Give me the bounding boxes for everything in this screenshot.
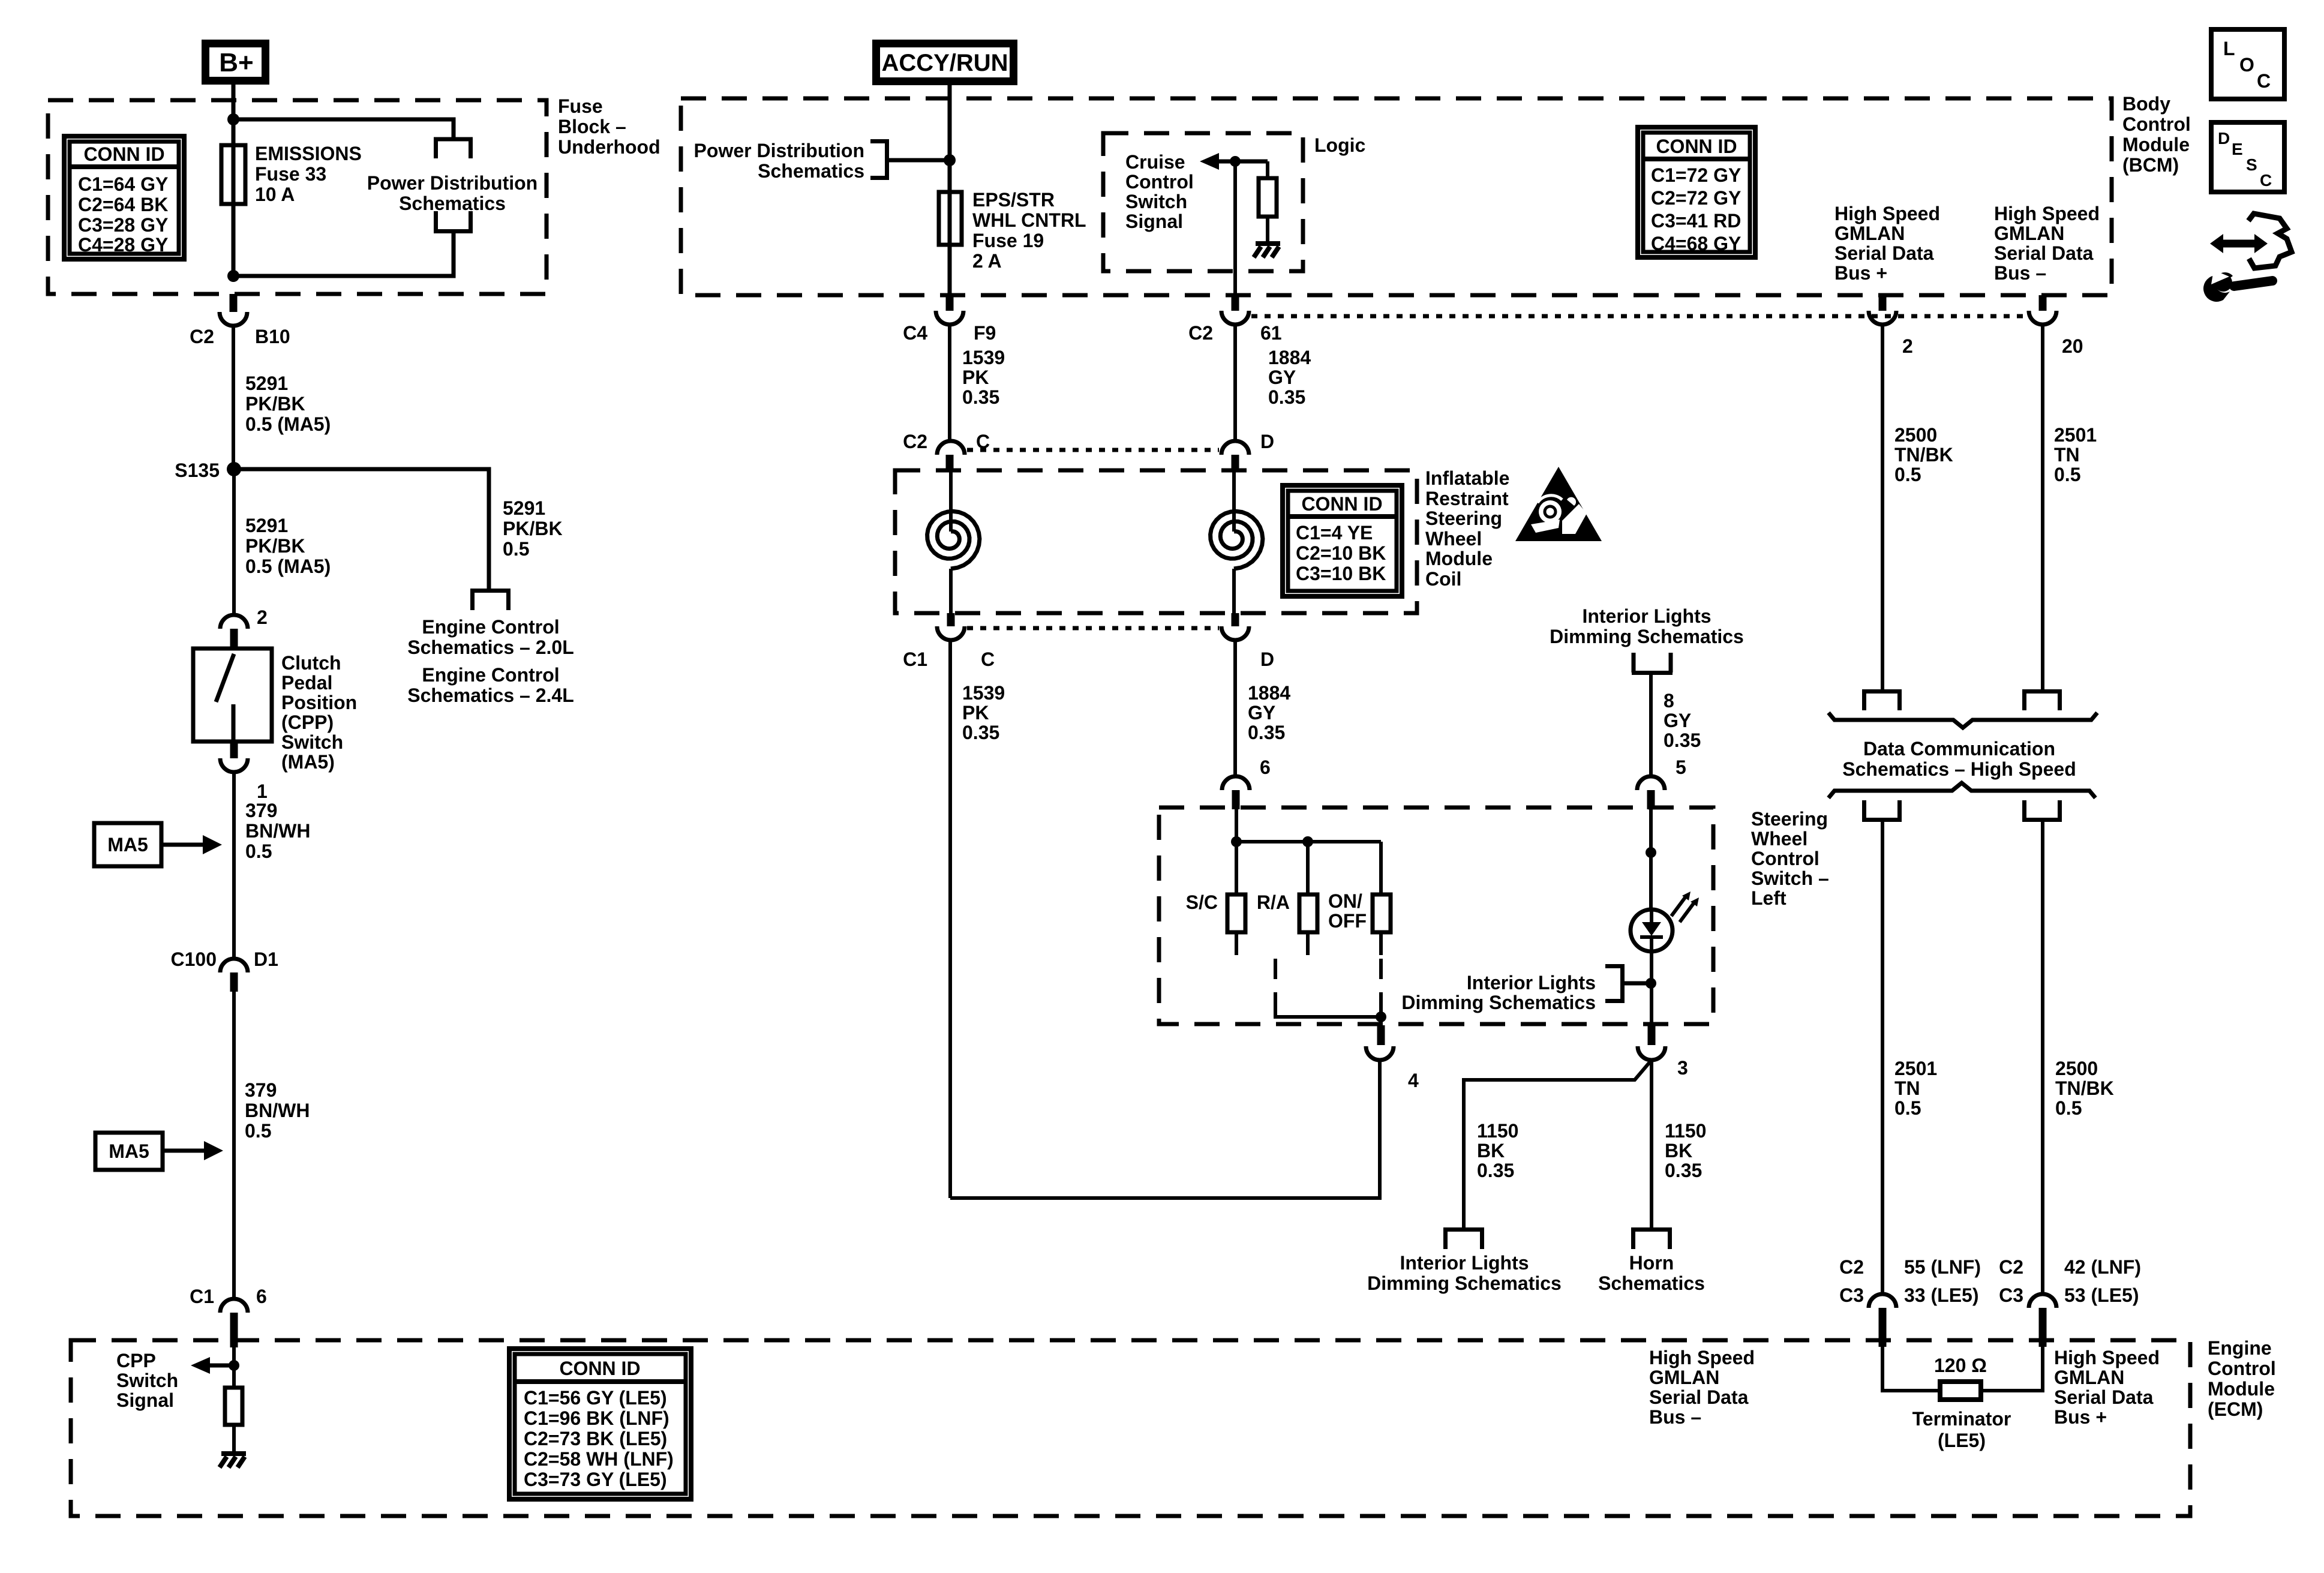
connector C4 F9 arc <box>936 311 963 325</box>
svg-text:C2: C2 <box>190 326 214 347</box>
svg-text:TN: TN <box>1894 1077 1920 1099</box>
svg-text:C: C <box>2257 70 2271 92</box>
svg-text:C: C <box>981 649 995 670</box>
CONN ID table (ECM) <box>509 1349 691 1499</box>
pin 6 arc <box>1222 776 1250 790</box>
svg-text:6: 6 <box>1260 757 1271 778</box>
svg-text:C2: C2 <box>1999 1256 2023 1278</box>
ground (cruise logic) <box>1254 244 1280 257</box>
svg-text:D1: D1 <box>254 948 278 970</box>
pin 6 ECM arc <box>220 1299 248 1313</box>
svg-text:EMISSIONS: EMISSIONS <box>255 143 362 164</box>
svg-text:0.5: 0.5 <box>245 1120 271 1142</box>
svg-text:Switch –: Switch – <box>1751 867 1829 889</box>
svg-text:0.35: 0.35 <box>962 386 999 408</box>
connector D arc (coil top right) <box>1221 441 1249 455</box>
svg-text:Engine Control: Engine Control <box>422 664 559 686</box>
svg-text:2: 2 <box>1902 335 1913 357</box>
svg-text:Schematics – 2.4L: Schematics – 2.4L <box>407 685 574 706</box>
svg-text:Fuse 33: Fuse 33 <box>255 163 326 185</box>
svg-text:Inflatable: Inflatable <box>1425 467 1509 489</box>
svg-text:Dimming Schematics: Dimming Schematics <box>1401 992 1596 1013</box>
svg-text:Control: Control <box>2122 113 2191 135</box>
svg-text:CPP: CPP <box>116 1350 156 1371</box>
switch blade <box>216 654 234 702</box>
svg-text:C: C <box>2260 171 2272 190</box>
svg-text:R/A: R/A <box>1257 891 1290 913</box>
svg-text:B+: B+ <box>219 48 253 77</box>
ECM pin arc left <box>1869 1294 1896 1308</box>
svg-text:Signal: Signal <box>116 1389 174 1411</box>
pin 3 stub and arc <box>1648 1025 1656 1045</box>
svg-text:C4=28 GY: C4=28 GY <box>78 234 168 256</box>
svg-text:(MA5): (MA5) <box>281 751 335 773</box>
MA5 arrow 2 <box>163 1149 205 1153</box>
svg-text:C1=64 GY: C1=64 GY <box>78 173 168 195</box>
off-page bracket Power Distribution bottom <box>434 211 473 232</box>
svg-text:Serial Data: Serial Data <box>2054 1386 2154 1408</box>
wire 5291 PK/BK upper <box>232 326 235 469</box>
svg-text:PK/BK: PK/BK <box>245 393 305 415</box>
svg-text:Serial Data: Serial Data <box>1649 1386 1749 1408</box>
svg-text:0.5: 0.5 <box>245 840 272 862</box>
svg-text:C1=56 GY (LE5): C1=56 GY (LE5) <box>524 1387 667 1409</box>
svg-text:Logic: Logic <box>1314 134 1365 156</box>
connector C2 61 arc <box>1221 311 1249 325</box>
svg-text:High Speed: High Speed <box>2054 1347 2160 1368</box>
svg-text:OFF: OFF <box>1328 910 1367 932</box>
svg-text:MA5: MA5 <box>109 1140 149 1162</box>
svg-text:S135: S135 <box>175 460 220 481</box>
svg-text:Restraint: Restraint <box>1425 488 1509 509</box>
off-page bracket Engine Control Schematics <box>470 591 511 611</box>
svg-text:High Speed: High Speed <box>1649 1347 1755 1368</box>
svg-text:Terminator: Terminator <box>1912 1408 2011 1430</box>
svg-text:(CPP): (CPP) <box>281 712 334 733</box>
pull-up resistor branch <box>1266 161 1269 178</box>
wire 2500 TN/BK lower <box>2041 819 2044 1294</box>
svg-text:Serial Data: Serial Data <box>1834 242 1934 264</box>
svg-text:E: E <box>2232 140 2243 158</box>
svg-text:Data Communication: Data Communication <box>1863 738 2055 760</box>
connector C100 stub <box>230 972 238 992</box>
svg-text:BK: BK <box>1477 1140 1505 1161</box>
R/A switch resistor <box>1299 894 1317 932</box>
svg-text:1884: 1884 <box>1248 682 1290 704</box>
wire 5291 PK/BK lower <box>232 469 236 616</box>
svg-text:0.5 (MA5): 0.5 (MA5) <box>245 413 331 435</box>
svg-text:Body: Body <box>2122 93 2170 115</box>
pin 2 connector arc <box>220 615 248 629</box>
ACCY/RUN power rail box <box>876 44 1014 82</box>
svg-text:Block –: Block – <box>558 116 626 137</box>
off-page bracket interior lights header <box>1632 653 1673 673</box>
svg-text:S: S <box>2246 155 2257 174</box>
wire 2500 TN/BK upper <box>1881 325 1884 691</box>
off-page bracket interior dimming (inner) <box>1605 966 1625 1001</box>
svg-text:C3=10 BK: C3=10 BK <box>1296 563 1386 584</box>
svg-text:C1: C1 <box>903 649 927 670</box>
BCM dashed box <box>681 98 2112 295</box>
svg-text:Coil: Coil <box>1425 568 1461 590</box>
switch fixed contact <box>232 704 236 742</box>
svg-text:BK: BK <box>1665 1140 1692 1161</box>
svg-text:PK/BK: PK/BK <box>245 535 305 557</box>
CONN ID table (BCM) <box>1638 127 1755 257</box>
wire 379 BN/WH upper <box>232 772 236 959</box>
svg-text:C3=41 RD: C3=41 RD <box>1651 210 1741 232</box>
S/C switch resistor <box>1227 894 1245 932</box>
svg-text:C100: C100 <box>171 948 217 970</box>
svg-text:WHL CNTRL: WHL CNTRL <box>972 209 1086 231</box>
ON/OFF switch resistor <box>1373 894 1391 932</box>
svg-text:C2=73 BK (LE5): C2=73 BK (LE5) <box>524 1428 667 1449</box>
fuse EPS/STR WHL CNTRL Fuse 19 2A <box>939 192 962 245</box>
svg-text:33 (LE5): 33 (LE5) <box>1904 1284 1978 1306</box>
svg-text:10 A: 10 A <box>255 184 295 205</box>
wire pin3 to horn <box>1650 1060 1653 1230</box>
svg-text:Wheel: Wheel <box>1751 828 1807 849</box>
wire 1539 PK upper <box>948 325 951 441</box>
svg-text:PK: PK <box>962 702 989 724</box>
LED indicator <box>1631 909 1673 951</box>
svg-text:Power Distribution: Power Distribution <box>694 140 864 161</box>
svg-text:CONN ID: CONN ID <box>559 1358 640 1379</box>
svg-text:Serial Data: Serial Data <box>1994 242 2094 264</box>
svg-text:C2: C2 <box>1188 322 1213 344</box>
mechanical link dashes <box>1274 959 1277 1005</box>
svg-text:Schematics: Schematics <box>1598 1272 1705 1294</box>
dotted connector face line (coil top) <box>967 448 1219 452</box>
svg-text:Dimming Schematics: Dimming Schematics <box>1367 1272 1562 1294</box>
svg-text:ON/: ON/ <box>1328 890 1362 912</box>
svg-text:1150: 1150 <box>1477 1120 1518 1142</box>
coil spiral right <box>1211 472 1263 613</box>
connector C2 61 stub <box>1232 295 1239 311</box>
svg-text:L: L <box>2223 38 2235 59</box>
svg-text:2501: 2501 <box>1894 1058 1937 1079</box>
pin 2 stub <box>230 629 238 649</box>
wire 379 BN/WH lower <box>232 992 236 1299</box>
pin 5 arc <box>1637 776 1665 790</box>
svg-text:ACCY/RUN: ACCY/RUN <box>881 50 1008 76</box>
CONN ID table (fuse block) <box>64 136 184 259</box>
fuse EMISSIONS Fuse 33 10 A <box>221 145 245 204</box>
connector C4 F9 stub <box>946 295 954 311</box>
off-page bracket horn schematics <box>1631 1230 1672 1250</box>
inflatable restraint coil dashed box <box>895 470 1417 613</box>
pin 6 ECM stub <box>230 1313 238 1347</box>
svg-text:61: 61 <box>1260 322 1282 344</box>
wire 2501 TN upper <box>2041 325 2044 691</box>
svg-text:53 (LE5): 53 (LE5) <box>2064 1284 2139 1306</box>
off-page bracket 2501 lower <box>1862 800 1902 820</box>
off-page bracket Power Distribution top <box>434 139 473 158</box>
svg-text:C3=28 GY: C3=28 GY <box>78 214 168 236</box>
junction on ACCY wire <box>944 154 956 166</box>
svg-text:Schematics – High Speed: Schematics – High Speed <box>1842 758 2076 780</box>
DESC icon box <box>2211 122 2284 192</box>
LOC icon box <box>2211 29 2284 99</box>
svg-text:2501: 2501 <box>2054 424 2097 446</box>
svg-text:TN/BK: TN/BK <box>1894 444 1953 466</box>
connector D arc (coil bottom right) <box>1221 626 1249 640</box>
svg-text:C2=72 GY: C2=72 GY <box>1651 187 1741 209</box>
svg-text:C1=4 YE: C1=4 YE <box>1296 522 1373 544</box>
svg-text:Underhood: Underhood <box>558 136 660 158</box>
wire 1539 PK lower <box>948 640 952 1198</box>
svg-text:Steering: Steering <box>1425 508 1502 529</box>
svg-text:0.5: 0.5 <box>2055 1097 2082 1119</box>
connector C2 B10 stub <box>230 294 238 312</box>
svg-text:Interior Lights: Interior Lights <box>1400 1252 1529 1274</box>
svg-text:GMLAN: GMLAN <box>1649 1367 1719 1388</box>
svg-text:CONN ID: CONN ID <box>1301 493 1382 515</box>
svg-text:S/C: S/C <box>1186 891 1218 913</box>
svg-text:D: D <box>2218 129 2230 148</box>
svg-text:Dimming Schematics: Dimming Schematics <box>1550 626 1744 647</box>
svg-text:0.35: 0.35 <box>1477 1160 1514 1181</box>
svg-text:EPS/STR: EPS/STR <box>972 189 1055 211</box>
svg-text:Fuse: Fuse <box>558 95 603 117</box>
svg-text:Steering: Steering <box>1751 808 1828 830</box>
svg-text:8: 8 <box>1664 690 1674 712</box>
connector C1 C arc (coil bottom left) <box>937 626 965 640</box>
ECM input resistor <box>225 1388 242 1425</box>
svg-text:(LE5): (LE5) <box>1938 1430 1986 1451</box>
svg-text:2500: 2500 <box>1894 424 1937 446</box>
svg-text:C3: C3 <box>1839 1284 1864 1306</box>
switch feed wire and bus <box>1235 807 1238 894</box>
wire through fuse 33 <box>232 119 236 276</box>
svg-text:C2=58 WH (LNF): C2=58 WH (LNF) <box>524 1448 674 1470</box>
wire loop to Power Distribution Schematics (top) <box>233 119 454 139</box>
svg-text:0.5: 0.5 <box>503 538 529 560</box>
svg-text:2500: 2500 <box>2055 1058 2098 1079</box>
svg-text:5291: 5291 <box>245 515 288 536</box>
wire ACCY/RUN down <box>948 85 952 295</box>
svg-text:GY: GY <box>1268 367 1296 388</box>
wire 8 GY <box>1649 673 1653 776</box>
coil spiral left <box>949 472 953 532</box>
brace lower (data comm) <box>1828 783 2095 798</box>
svg-text:Schematics – 2.0L: Schematics – 2.0L <box>407 637 574 658</box>
svg-text:Horn: Horn <box>1629 1252 1674 1274</box>
wire loop return to fuse bottom <box>233 231 454 276</box>
MA5 arrow 1 <box>161 843 204 847</box>
svg-text:GMLAN: GMLAN <box>1834 223 1905 244</box>
svg-text:0.35: 0.35 <box>962 722 999 743</box>
svg-text:Left: Left <box>1751 887 1786 909</box>
wire 1884 GY lower <box>1233 640 1237 776</box>
LED light arrows <box>1671 895 1695 922</box>
B+ power rail box <box>206 44 266 81</box>
svg-text:Power Distribution: Power Distribution <box>367 172 538 194</box>
pin 4 stub and arc <box>1377 1025 1385 1045</box>
CPP switch signal arrow <box>209 1364 234 1368</box>
navigation icon (arrow and wrench) <box>2203 214 2292 302</box>
svg-text:Position: Position <box>281 692 357 713</box>
svg-text:Module: Module <box>1425 548 1493 569</box>
off-page bracket interior lights dimming (bottom) <box>1443 1230 1484 1250</box>
SRS warning triangle <box>1515 467 1602 541</box>
svg-text:0.35: 0.35 <box>1664 730 1701 751</box>
steering wheel control switch dashed box <box>1159 807 1713 1024</box>
svg-text:C3: C3 <box>1999 1284 2023 1306</box>
splice S135 <box>227 462 241 476</box>
clutch pedal position switch box <box>193 649 272 742</box>
svg-text:Bus –: Bus – <box>1649 1406 1701 1428</box>
svg-text:Engine: Engine <box>2208 1337 2272 1359</box>
ground (ECM) <box>220 1454 246 1467</box>
svg-text:379: 379 <box>245 800 277 821</box>
CONN ID table (coil) <box>1283 485 1402 596</box>
MA5 reference box 1 <box>94 823 161 866</box>
svg-text:C1=96 BK (LNF): C1=96 BK (LNF) <box>524 1407 669 1429</box>
svg-text:Control: Control <box>1751 848 1819 869</box>
svg-text:B10: B10 <box>255 326 290 347</box>
svg-text:High Speed: High Speed <box>1834 203 1940 224</box>
svg-text:Engine Control: Engine Control <box>422 616 559 638</box>
ECM dashed box <box>71 1340 2190 1516</box>
svg-text:Schematics: Schematics <box>758 160 864 182</box>
svg-text:CONN ID: CONN ID <box>1656 136 1737 157</box>
svg-text:Module: Module <box>2208 1378 2275 1400</box>
svg-text:Module: Module <box>2122 134 2190 155</box>
cruise control logic dashed box <box>1103 133 1303 271</box>
svg-text:Interior Lights: Interior Lights <box>1467 972 1596 993</box>
junction node top <box>227 113 239 125</box>
svg-text:Control: Control <box>1125 171 1194 193</box>
svg-text:PK: PK <box>962 367 989 388</box>
svg-text:20: 20 <box>2062 335 2083 357</box>
wiper common wire <box>1275 1003 1381 1017</box>
coil bottom stub left <box>947 613 955 626</box>
diagonal branch at pin 3 <box>1464 1060 1652 1230</box>
svg-text:High Speed: High Speed <box>1994 203 2100 224</box>
svg-text:TN: TN <box>2054 444 2080 466</box>
svg-text:Control: Control <box>2208 1358 2276 1379</box>
wire B+ to fuse block <box>232 85 236 119</box>
svg-text:Bus +: Bus + <box>2054 1406 2107 1428</box>
off-page bracket bus- top <box>2022 692 2062 711</box>
svg-text:0.5: 0.5 <box>1894 1097 1921 1119</box>
svg-text:5291: 5291 <box>503 497 545 519</box>
svg-text:1150: 1150 <box>1665 1120 1706 1142</box>
svg-text:Clutch: Clutch <box>281 652 341 674</box>
svg-text:Signal: Signal <box>1125 211 1183 232</box>
svg-text:C4: C4 <box>903 322 927 344</box>
wire pin4 loop to 1539 PK <box>950 1060 1380 1198</box>
svg-text:C2=64 BK: C2=64 BK <box>78 194 168 215</box>
pin 1 stub <box>230 742 238 758</box>
svg-text:Wheel: Wheel <box>1425 528 1482 550</box>
svg-text:C2: C2 <box>903 431 927 452</box>
connector C100 arc <box>220 959 248 972</box>
dotted connector face line BCM C2 <box>1251 314 2028 319</box>
svg-text:GMLAN: GMLAN <box>2054 1367 2124 1388</box>
wire 1884 GY upper <box>1233 325 1237 441</box>
svg-text:GY: GY <box>1664 710 1691 731</box>
svg-text:MA5: MA5 <box>107 834 148 855</box>
svg-text:0.5: 0.5 <box>2054 464 2080 485</box>
svg-text:0.5 (MA5): 0.5 (MA5) <box>245 556 331 577</box>
svg-text:1884: 1884 <box>1268 347 1311 368</box>
svg-text:5291: 5291 <box>245 373 288 394</box>
wire 2501 TN lower <box>1881 819 1884 1294</box>
svg-text:4: 4 <box>1408 1070 1419 1091</box>
svg-text:1: 1 <box>257 781 268 802</box>
svg-text:0.35: 0.35 <box>1665 1160 1702 1181</box>
svg-text:5: 5 <box>1676 757 1686 778</box>
CPP switch signal junction <box>229 1360 239 1371</box>
svg-text:C1: C1 <box>190 1286 214 1307</box>
svg-text:2: 2 <box>257 607 268 628</box>
svg-text:D: D <box>1260 649 1274 670</box>
svg-text:O: O <box>2239 54 2254 76</box>
svg-text:(ECM): (ECM) <box>2208 1398 2263 1420</box>
svg-text:PK/BK: PK/BK <box>503 518 563 539</box>
BCM pin 2 stub and arc <box>1879 295 1887 311</box>
svg-text:Bus –: Bus – <box>1994 262 2046 284</box>
wire branch to engine control schematics <box>234 469 489 590</box>
off-page bracket bus+ top <box>1862 692 1902 711</box>
svg-text:C4=68 GY: C4=68 GY <box>1651 233 1741 254</box>
pin 1 connector arc <box>220 758 248 772</box>
wire cruise signal down <box>1233 161 1237 295</box>
svg-text:GMLAN: GMLAN <box>1994 223 2064 244</box>
svg-text:1539: 1539 <box>962 347 1005 368</box>
MA5 reference box 2 <box>95 1133 163 1170</box>
dotted connector face line (coil bottom) <box>967 626 1219 631</box>
svg-text:C2=10 BK: C2=10 BK <box>1296 542 1386 564</box>
wire into ECM <box>232 1347 236 1388</box>
connector C2 C arc (coil top left) <box>937 441 965 455</box>
svg-text:TN/BK: TN/BK <box>2055 1077 2114 1099</box>
connector C2 B10 arc <box>220 312 247 326</box>
svg-text:1539: 1539 <box>962 682 1005 704</box>
junction node bottom <box>227 270 239 282</box>
svg-text:CONN ID: CONN ID <box>83 143 164 165</box>
svg-text:6: 6 <box>256 1286 267 1307</box>
cruise signal arrow <box>1218 160 1268 164</box>
svg-text:Cruise: Cruise <box>1125 151 1185 173</box>
terminator loop wires <box>1882 1347 2043 1391</box>
svg-text:Fuse 19: Fuse 19 <box>972 230 1044 251</box>
svg-text:C1=72 GY: C1=72 GY <box>1651 164 1741 186</box>
svg-text:Switch: Switch <box>281 731 343 753</box>
svg-text:379: 379 <box>245 1079 277 1101</box>
off-page bracket 2500 lower <box>2022 800 2062 820</box>
svg-text:Bus +: Bus + <box>1834 262 1887 284</box>
LED wire upper <box>1649 807 1653 909</box>
wire bracket to ACCY wire <box>889 158 950 163</box>
svg-text:120 Ω: 120 Ω <box>1934 1355 1987 1376</box>
brace upper (data comm) <box>1828 713 2097 728</box>
ECM pin arc right <box>2029 1294 2056 1308</box>
svg-text:42 (LNF): 42 (LNF) <box>2064 1256 2141 1278</box>
coil bottom stub right <box>1232 613 1239 626</box>
svg-text:Switch: Switch <box>1125 191 1187 212</box>
svg-text:BN/WH: BN/WH <box>245 1100 310 1121</box>
svg-text:0.35: 0.35 <box>1268 386 1305 408</box>
svg-text:C3=73 GY (LE5): C3=73 GY (LE5) <box>524 1469 667 1490</box>
svg-text:Schematics: Schematics <box>399 193 506 214</box>
svg-text:Pedal: Pedal <box>281 672 332 694</box>
junction cruise <box>1230 156 1241 167</box>
terminator 120 ohm resistor <box>1940 1382 1981 1400</box>
svg-text:Switch: Switch <box>116 1370 178 1391</box>
